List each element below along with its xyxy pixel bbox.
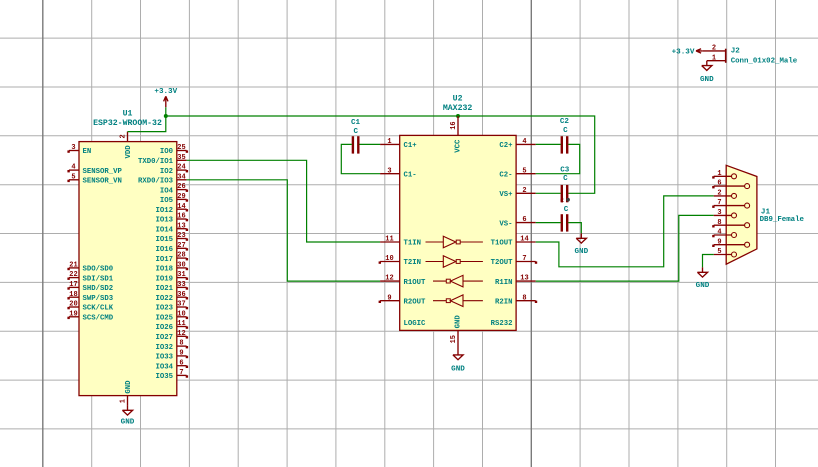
U2 pin 12 R1OUT: [380, 275, 426, 287]
U2 internal T1 buffer: [426, 236, 483, 248]
U1 pin 19 SCS/CMD: [67, 310, 113, 322]
svg-text:IO0: IO0: [160, 148, 173, 156]
wire C2+ to C2 left plate: [536, 143, 561, 145]
svg-text:VS-: VS-: [499, 220, 512, 228]
J1 pin 1: [712, 170, 736, 179]
U2 value MAX232: [443, 104, 473, 113]
IC U2 body: [400, 135, 516, 330]
U1 pin 12 IO27: [155, 330, 188, 342]
J1 reference: [761, 208, 771, 216]
U1 reference: [123, 109, 133, 118]
U1 pin 5 SENSOR_VN: [67, 173, 122, 185]
wire VS- to C4 left plate: [536, 222, 561, 224]
svg-text:LOGIC: LOGIC: [404, 320, 427, 328]
wire C1 left plate loop to C1-: [341, 144, 380, 173]
svg-text:21: 21: [69, 262, 77, 270]
U1 pin 7 IO35: [155, 369, 188, 381]
svg-text:GND: GND: [700, 76, 714, 84]
J2 value Conn_01x02_Male: [731, 58, 798, 66]
svg-text:5: 5: [71, 173, 75, 181]
U1 pin 36 IO22: [155, 291, 188, 303]
svg-text:C3: C3: [560, 167, 570, 175]
svg-text:ESP32-WROOM-32: ESP32-WROOM-32: [93, 119, 162, 128]
capacitor C4 (unnamed C): [562, 206, 569, 232]
connector J1 DB9_Female body: [726, 165, 757, 264]
U2 label RS232: [491, 320, 513, 328]
svg-text:4: 4: [717, 229, 721, 237]
svg-text:IO15: IO15: [155, 236, 173, 244]
ground symbol below U1: [121, 405, 135, 426]
svg-text:24: 24: [177, 164, 185, 172]
junction at U2 VCC tap: [456, 114, 460, 118]
wire 3.3V rail to VS+ via C3: [166, 116, 595, 193]
svg-text:IO25: IO25: [155, 315, 173, 323]
U1 value ESP32-WROOM-32: [93, 119, 162, 128]
svg-text:Conn_01x02_Male: Conn_01x02_Male: [731, 58, 798, 66]
svg-text:SDI/SD1: SDI/SD1: [83, 275, 114, 283]
svg-text:C2+: C2+: [499, 142, 513, 150]
svg-text:SCK/CLK: SCK/CLK: [83, 305, 114, 313]
capacitor C3: [560, 167, 570, 203]
svg-text:17: 17: [69, 281, 77, 289]
svg-text:13: 13: [177, 222, 185, 230]
svg-text:IO34: IO34: [155, 363, 173, 371]
svg-text:25: 25: [177, 144, 185, 152]
U1 pin 2 VDD (top): [120, 132, 134, 159]
U1 pin 23 IO15: [155, 232, 188, 244]
J1 pin 6: [712, 180, 749, 189]
U1 pin 18 SWP/SD3: [67, 291, 113, 303]
svg-text:22: 22: [69, 271, 77, 279]
svg-text:C2-: C2-: [499, 171, 512, 179]
svg-text:RXD0/IO3: RXD0/IO3: [138, 178, 174, 186]
U1 pin 3 EN: [67, 144, 91, 156]
svg-text:13: 13: [520, 275, 528, 283]
svg-text:19: 19: [69, 310, 77, 318]
svg-text:5: 5: [717, 248, 721, 256]
svg-text:T1IN: T1IN: [404, 240, 422, 248]
U2 pin 15 GND (bottom): [450, 315, 462, 350]
J2 pin 2: [703, 45, 726, 53]
wire C4 right plate to ground: [568, 223, 581, 234]
U1 pin 6 IO34: [155, 359, 188, 371]
U2 pin 5 C2-: [499, 167, 535, 179]
U1 pin 1 GND (bottom): [120, 380, 134, 406]
svg-text:IO32: IO32: [155, 344, 173, 352]
svg-text:1: 1: [717, 170, 721, 178]
svg-text:1: 1: [712, 54, 716, 62]
J1 pin 2: [714, 190, 737, 199]
svg-text:C1+: C1+: [404, 142, 418, 150]
svg-text:23: 23: [177, 232, 185, 240]
svg-text:T1OUT: T1OUT: [491, 240, 514, 248]
svg-text:20: 20: [69, 301, 77, 309]
svg-text:4: 4: [522, 138, 526, 146]
svg-text:C: C: [560, 197, 564, 204]
svg-text:+3.3V: +3.3V: [672, 49, 695, 57]
svg-text:GND: GND: [574, 248, 588, 256]
svg-text:GND: GND: [454, 315, 462, 329]
svg-text:T2IN: T2IN: [404, 259, 422, 267]
svg-text:7: 7: [717, 199, 721, 207]
svg-text:SCS/CMD: SCS/CMD: [83, 315, 114, 323]
svg-text:IO27: IO27: [155, 334, 173, 342]
svg-text:12: 12: [385, 275, 393, 283]
U2 pin 2 VS+: [499, 187, 535, 199]
svg-text:+3.3V: +3.3V: [154, 88, 177, 96]
svg-text:TXD0/IO1: TXD0/IO1: [138, 158, 174, 166]
svg-text:C: C: [563, 175, 568, 183]
svg-text:29: 29: [177, 193, 185, 201]
svg-text:IO4: IO4: [160, 187, 174, 195]
U1 pin 37 IO23: [155, 301, 188, 313]
U1 pin 11 IO26: [155, 320, 188, 332]
svg-text:IO33: IO33: [155, 354, 173, 362]
svg-text:MAX232: MAX232: [443, 104, 473, 113]
svg-text:C: C: [564, 206, 569, 214]
U1 pin 26 IO4: [160, 183, 188, 195]
svg-text:8: 8: [717, 219, 721, 227]
wire +3.3V stem: [165, 107, 167, 116]
U1 pin 29 IO5: [160, 193, 188, 205]
U1 pin 30 IO18: [155, 262, 188, 274]
U1 pin 21 SDO/SD0: [67, 262, 113, 274]
svg-text:IO23: IO23: [155, 305, 173, 313]
wire C1 right plate to C1+: [359, 143, 380, 145]
svg-text:SDO/SD0: SDO/SD0: [83, 266, 114, 274]
svg-text:34: 34: [177, 173, 185, 181]
capacitor C1: [351, 119, 361, 154]
wire VS+ to C3 left plate: [536, 192, 561, 194]
U2 internal T2 buffer: [426, 256, 483, 268]
J1 pin 4: [712, 229, 736, 238]
svg-text:R1OUT: R1OUT: [404, 279, 427, 287]
U2 reference: [453, 94, 463, 103]
U1 pin 22 SDI/SD1: [67, 271, 113, 283]
capacitor C2: [560, 118, 570, 154]
U1 pin 10 IO25: [155, 310, 188, 322]
svg-text:2: 2: [120, 134, 128, 138]
svg-text:30: 30: [177, 262, 185, 270]
U1 pin 27 IO16: [155, 242, 188, 254]
svg-text:3: 3: [717, 209, 721, 217]
svg-text:R2OUT: R2OUT: [404, 298, 427, 306]
svg-text:6: 6: [522, 216, 526, 224]
svg-text:SHD/SD2: SHD/SD2: [83, 285, 114, 293]
U2 pin 14 T1OUT: [491, 236, 536, 248]
svg-text:11: 11: [385, 236, 393, 244]
J1 value DB9_Female: [760, 216, 805, 224]
svg-text:VDD: VDD: [125, 145, 133, 159]
J1 pin 7: [712, 199, 749, 208]
svg-text:8: 8: [179, 340, 183, 348]
svg-text:GND: GND: [121, 419, 135, 427]
svg-text:IO22: IO22: [155, 295, 173, 303]
U1 pin 34 RXD0/IO3: [138, 173, 187, 185]
svg-text:IO17: IO17: [155, 256, 173, 264]
svg-text:15: 15: [450, 335, 458, 343]
svg-text:IO35: IO35: [155, 373, 173, 381]
svg-text:18: 18: [69, 291, 77, 299]
U1 pin 13 IO14: [155, 222, 188, 234]
U2 internal R1 buffer: [433, 275, 483, 287]
svg-text:37: 37: [177, 301, 185, 309]
U2 pin 11 T1IN: [380, 236, 421, 248]
J1 pin 3: [714, 209, 737, 218]
svg-text:GND: GND: [451, 366, 465, 374]
wire RXD0/IO3 to R1OUT: [187, 180, 381, 281]
U1 pin 14 IO12: [155, 203, 188, 215]
svg-text:IO26: IO26: [155, 324, 173, 332]
U2 label LOGIC: [404, 320, 427, 328]
svg-text:12: 12: [177, 330, 185, 338]
ground symbol below U2: [451, 350, 465, 374]
U2 pin 4 C2+: [499, 138, 535, 150]
ground symbol below DB9 pin5: [696, 267, 710, 290]
U1 pin 33 IO21: [155, 281, 188, 293]
svg-text:10: 10: [177, 310, 185, 318]
U2 pin 6 VS-: [499, 216, 535, 228]
J1 pin 8: [712, 219, 749, 228]
svg-text:3: 3: [71, 144, 75, 152]
svg-text:9: 9: [717, 238, 721, 246]
svg-text:IO12: IO12: [155, 207, 173, 215]
U1 pin 24 IO2: [160, 164, 188, 176]
U2 pin 10 T2IN: [379, 255, 421, 267]
svg-text:9: 9: [179, 350, 183, 358]
svg-text:14: 14: [520, 236, 528, 244]
svg-text:R2IN: R2IN: [495, 298, 513, 306]
wire VDD feed: [128, 116, 166, 132]
svg-text:IO14: IO14: [155, 226, 173, 234]
svg-text:33: 33: [177, 281, 185, 289]
U2 pin 1 C1+: [380, 138, 417, 150]
svg-text:4: 4: [71, 164, 75, 172]
svg-text:35: 35: [177, 154, 185, 162]
ground symbol below C4: [574, 233, 588, 256]
svg-text:27: 27: [177, 242, 185, 250]
svg-text:SWP/SD3: SWP/SD3: [83, 295, 114, 303]
U1 pin 8 IO32: [155, 340, 188, 352]
svg-text:6: 6: [179, 359, 183, 367]
svg-text:IO5: IO5: [160, 197, 173, 205]
svg-text:1: 1: [387, 138, 391, 146]
junction at +3.3V tap: [164, 114, 168, 118]
svg-text:DB9_Female: DB9_Female: [760, 216, 805, 224]
svg-text:3: 3: [387, 167, 391, 175]
svg-text:IO13: IO13: [155, 217, 173, 225]
U1 pin 35 TXD0/IO1: [138, 154, 187, 166]
U2 pin 16 VCC (top): [450, 116, 462, 153]
J2 pin 1: [707, 54, 726, 62]
svg-text:IO19: IO19: [155, 275, 173, 283]
svg-text:16: 16: [177, 213, 185, 221]
svg-text:T2OUT: T2OUT: [491, 259, 514, 267]
svg-text:IO21: IO21: [155, 285, 173, 293]
svg-text:11: 11: [177, 320, 185, 328]
svg-text:C1: C1: [351, 119, 361, 127]
U1 pin 16 IO13: [155, 213, 188, 225]
U1 pin 17 SHD/SD2: [67, 281, 113, 293]
svg-text:R1IN: R1IN: [495, 279, 513, 287]
U1 pin 28 IO17: [155, 252, 188, 264]
svg-text:7: 7: [522, 255, 526, 263]
svg-text:9: 9: [387, 294, 391, 302]
svg-text:16: 16: [450, 121, 458, 129]
svg-text:IO2: IO2: [160, 168, 173, 176]
svg-text:GND: GND: [125, 380, 133, 394]
svg-text:14: 14: [177, 203, 185, 211]
U2 pin 7 T2OUT: [491, 255, 538, 267]
wire DB9 pin5 to ground: [703, 255, 714, 268]
svg-text:26: 26: [177, 183, 185, 191]
connector J2 body: [725, 49, 727, 63]
svg-text:U2: U2: [453, 94, 463, 103]
U1 pin 31 IO19: [155, 271, 188, 283]
U2 pin 9 R2OUT: [379, 294, 426, 306]
svg-text:1: 1: [120, 399, 128, 403]
svg-text:6: 6: [717, 180, 721, 188]
svg-text:10: 10: [385, 255, 393, 263]
U2 pin 13 R1IN: [495, 275, 536, 287]
J1 pin 5: [714, 248, 737, 257]
svg-text:VS+: VS+: [499, 191, 513, 199]
svg-text:IO18: IO18: [155, 266, 173, 274]
wire C2 right plate loop to C2-: [536, 144, 580, 173]
svg-text:C: C: [354, 128, 359, 136]
U2 pin 8 R2IN: [495, 294, 537, 306]
IC U1 body: [79, 142, 177, 396]
J2 reference: [731, 48, 741, 56]
svg-text:SENSOR_VN: SENSOR_VN: [83, 178, 122, 186]
svg-text:8: 8: [522, 294, 526, 302]
wire R1IN to DB9 pin3: [536, 215, 714, 281]
U1 pin 25 IO0: [160, 144, 188, 156]
svg-text:2: 2: [712, 45, 716, 53]
svg-text:C2: C2: [560, 118, 570, 126]
power symbol +3.3V at J2: [672, 49, 703, 57]
svg-text:5: 5: [522, 167, 526, 175]
svg-text:GND: GND: [696, 282, 710, 290]
svg-text:VCC: VCC: [454, 139, 462, 153]
svg-text:C1-: C1-: [404, 171, 417, 179]
ground symbol at J2 pin1: [700, 61, 714, 84]
svg-text:IO16: IO16: [155, 246, 173, 254]
U1 pin 9 IO33: [155, 350, 188, 362]
svg-text:SENSOR_VP: SENSOR_VP: [83, 168, 123, 176]
U2 pin 3 C1-: [380, 167, 417, 179]
svg-text:36: 36: [177, 291, 185, 299]
svg-text:28: 28: [177, 252, 185, 260]
svg-text:31: 31: [177, 271, 185, 279]
svg-text:U1: U1: [123, 109, 133, 118]
J1 pin 9: [712, 238, 749, 247]
svg-text:2: 2: [717, 190, 721, 198]
U1 pin 4 SENSOR_VP: [67, 164, 122, 176]
svg-text:2: 2: [522, 187, 526, 195]
svg-text:J2: J2: [731, 48, 741, 56]
wire TXD0/IO1 to T1IN: [187, 160, 381, 242]
U1 pin 20 SCK/CLK: [67, 301, 113, 313]
svg-text:EN: EN: [83, 148, 92, 156]
power symbol +3.3V (above U1): [154, 88, 177, 107]
wire T1OUT to DB9 pin2: [536, 196, 714, 267]
svg-text:7: 7: [179, 369, 183, 377]
cursor dot near C3: [566, 198, 570, 202]
U2 internal R2 buffer: [433, 295, 483, 307]
svg-text:C: C: [563, 127, 568, 135]
svg-text:RS232: RS232: [491, 320, 513, 328]
